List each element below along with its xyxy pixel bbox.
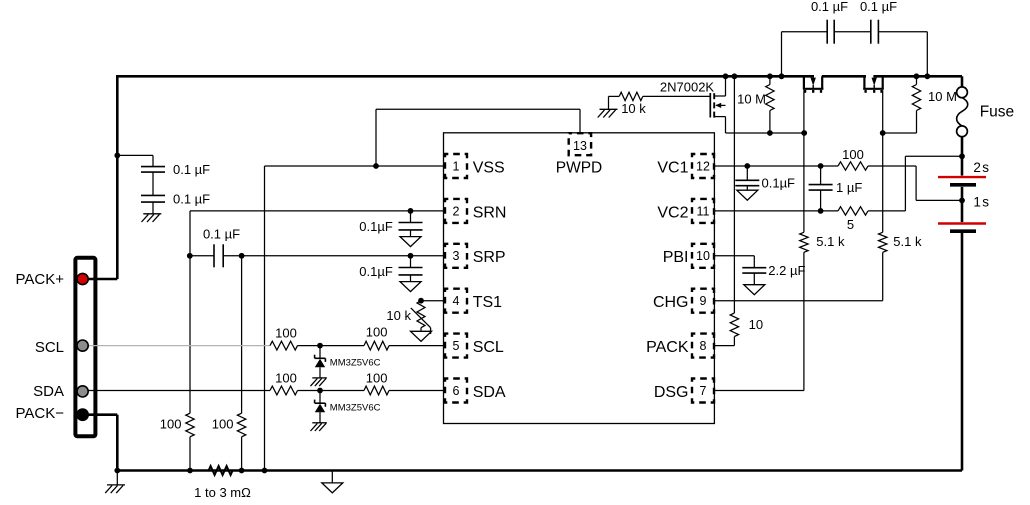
svg-text:8: 8 bbox=[700, 339, 707, 353]
svg-text:VC1: VC1 bbox=[657, 159, 688, 176]
svg-text:11: 11 bbox=[697, 204, 710, 218]
svg-text:4: 4 bbox=[453, 294, 460, 308]
svg-text:0.1µF: 0.1µF bbox=[762, 176, 796, 191]
svg-text:PACK−: PACK− bbox=[16, 405, 65, 422]
svg-text:5.1 k: 5.1 k bbox=[893, 234, 922, 249]
svg-text:SCL: SCL bbox=[35, 339, 64, 356]
svg-text:100: 100 bbox=[842, 147, 864, 162]
svg-text:PWPD: PWPD bbox=[556, 159, 603, 176]
svg-text:100: 100 bbox=[160, 417, 182, 432]
svg-text:5: 5 bbox=[453, 339, 460, 353]
svg-text:10 M: 10 M bbox=[928, 89, 957, 104]
svg-text:SDA: SDA bbox=[33, 383, 64, 400]
svg-text:2N7002K: 2N7002K bbox=[660, 80, 715, 95]
svg-text:6: 6 bbox=[453, 384, 460, 398]
svg-text:0.1 µF: 0.1 µF bbox=[173, 162, 210, 177]
svg-text:SRP: SRP bbox=[473, 249, 506, 266]
svg-text:0.1 µF: 0.1 µF bbox=[203, 226, 240, 241]
svg-text:10: 10 bbox=[749, 317, 763, 332]
svg-text:12: 12 bbox=[696, 159, 710, 173]
svg-text:10 k: 10 k bbox=[621, 101, 646, 116]
svg-text:PACK: PACK bbox=[646, 339, 689, 356]
svg-text:1: 1 bbox=[453, 159, 460, 173]
svg-text:1 to 3 mΩ: 1 to 3 mΩ bbox=[194, 485, 251, 500]
svg-text:1 µF: 1 µF bbox=[836, 180, 862, 195]
svg-text:10 M: 10 M bbox=[737, 91, 766, 106]
svg-text:DSG: DSG bbox=[654, 384, 689, 401]
svg-text:100: 100 bbox=[366, 325, 388, 340]
svg-text:2s: 2s bbox=[973, 160, 990, 175]
svg-text:PACK+: PACK+ bbox=[16, 271, 65, 288]
svg-text:1s: 1s bbox=[973, 195, 990, 210]
svg-text:5: 5 bbox=[847, 217, 854, 232]
svg-text:CHG: CHG bbox=[653, 294, 689, 311]
svg-text:0.1µF: 0.1µF bbox=[359, 219, 393, 234]
svg-text:0.1 µF: 0.1 µF bbox=[860, 0, 897, 14]
svg-text:Fuse: Fuse bbox=[980, 104, 1014, 121]
svg-text:2.2 µF: 2.2 µF bbox=[768, 263, 805, 278]
svg-text:100: 100 bbox=[275, 370, 297, 385]
svg-text:10 k: 10 k bbox=[386, 308, 411, 323]
svg-text:0.1µF: 0.1µF bbox=[359, 264, 393, 279]
svg-text:SCL: SCL bbox=[473, 339, 504, 356]
svg-text:100: 100 bbox=[212, 417, 234, 432]
svg-text:0.1 µF: 0.1 µF bbox=[173, 192, 210, 207]
svg-text:10: 10 bbox=[696, 249, 710, 263]
svg-text:13: 13 bbox=[573, 139, 587, 153]
svg-text:100: 100 bbox=[366, 370, 388, 385]
svg-text:SDA: SDA bbox=[473, 384, 506, 401]
svg-text:SRN: SRN bbox=[473, 204, 507, 221]
svg-text:MM3Z5V6C: MM3Z5V6C bbox=[330, 403, 381, 414]
svg-text:100: 100 bbox=[275, 326, 297, 341]
svg-text:MM3Z5V6C: MM3Z5V6C bbox=[330, 358, 381, 369]
svg-text:3: 3 bbox=[453, 249, 460, 263]
svg-text:PBI: PBI bbox=[663, 249, 689, 266]
svg-text:0.1 µF: 0.1 µF bbox=[811, 0, 848, 14]
svg-text:VC2: VC2 bbox=[657, 204, 688, 221]
svg-text:2: 2 bbox=[453, 204, 460, 218]
svg-text:5.1 k: 5.1 k bbox=[816, 234, 845, 249]
svg-text:VSS: VSS bbox=[473, 159, 505, 176]
svg-text:TS1: TS1 bbox=[473, 294, 502, 311]
svg-text:9: 9 bbox=[700, 294, 707, 308]
svg-text:7: 7 bbox=[700, 384, 707, 398]
